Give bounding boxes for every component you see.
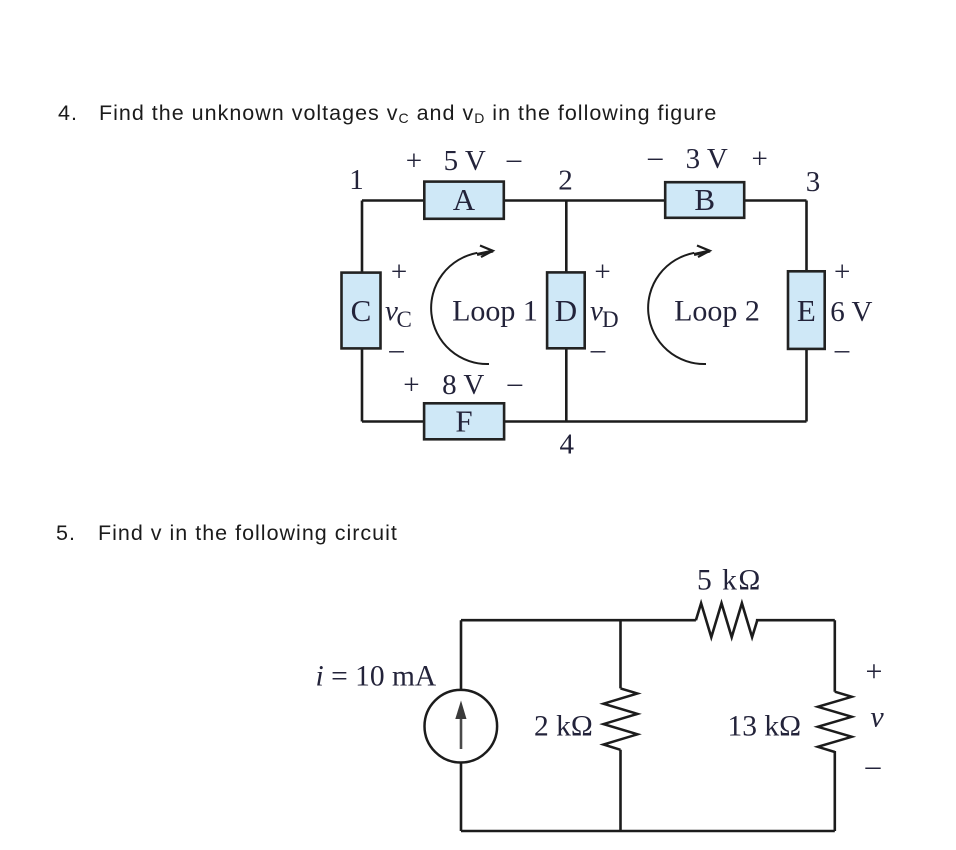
- box B: [665, 182, 744, 218]
- wire right below resistor: [833, 751, 836, 831]
- svg-text:2 kΩ: 2 kΩ: [534, 711, 593, 743]
- svg-text:–: –: [865, 749, 882, 782]
- wire left above source: [460, 620, 463, 690]
- loop 1 arc arrow: [431, 246, 493, 365]
- svg-text:+: +: [866, 655, 883, 688]
- box D: [547, 272, 585, 348]
- wire right above resistor: [833, 620, 836, 692]
- wire top from node 1 to node 3: [362, 199, 807, 202]
- wire bottom: [362, 420, 807, 423]
- wire middle below resistor: [619, 750, 622, 831]
- svg-text:5 kΩ: 5 kΩ: [697, 565, 762, 597]
- wire middle above resistor: [619, 620, 622, 688]
- svg-text:i = 10 mA: i = 10 mA: [316, 661, 437, 693]
- label vD with polarity: [590, 256, 619, 366]
- resistor 5k zigzag horizontal: [696, 603, 757, 637]
- wire bottom: [461, 830, 835, 833]
- loop 2 arc arrow: [648, 246, 710, 365]
- label 6V with polarity for element E: [830, 256, 872, 366]
- label v with polarity: [865, 655, 885, 782]
- wire left below source: [460, 762, 463, 831]
- box E: [788, 271, 825, 349]
- box A: [424, 182, 504, 219]
- label vC with polarity: [385, 256, 412, 366]
- label i = 10 mA: [316, 661, 437, 693]
- resistor 2k zigzag vertical: [604, 688, 638, 749]
- box F: [424, 403, 504, 439]
- resistor 13k zigzag vertical: [818, 692, 852, 752]
- current source I1 circle: [425, 690, 498, 763]
- svg-text:v: v: [870, 701, 884, 734]
- wire right branch node3 down: [805, 201, 808, 422]
- wire middle branch node2 to node4: [565, 201, 568, 422]
- label +5V- for element A: [406, 143, 522, 177]
- problem 5 statement: [56, 523, 76, 545]
- label +8V- for element F: [403, 367, 522, 401]
- wire top left segment: [461, 619, 696, 622]
- label -3V+ for element B: [647, 141, 768, 175]
- svg-text:13 kΩ: 13 kΩ: [728, 711, 802, 743]
- wire left branch node1 to node4: [361, 201, 364, 422]
- box C: [342, 273, 381, 349]
- wire top right segment: [756, 619, 835, 622]
- problem 4 statement: [58, 103, 78, 125]
